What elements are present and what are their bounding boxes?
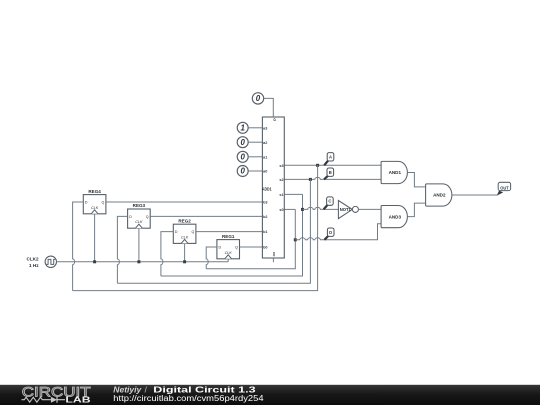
wire S3 feedback to REG4 D [73, 165, 318, 290]
svg-text:D: D [175, 230, 178, 234]
svg-text:REG1: REG1 [222, 234, 235, 239]
inverter NOT1 [338, 201, 358, 219]
node flag A [324, 153, 334, 166]
svg-text:LAB: LAB [65, 395, 90, 405]
svg-text:REG2: REG2 [178, 218, 191, 223]
svg-text:0: 0 [256, 94, 261, 103]
footer CircuitLab logo [22, 383, 92, 404]
svg-text:a2: a2 [263, 141, 267, 145]
flip-flop REG3 [128, 203, 151, 228]
and gate AND1 [381, 161, 407, 183]
svg-text:D: D [129, 215, 132, 219]
constant 0 source a2 [237, 137, 248, 148]
constant 1 source a3 [237, 122, 248, 133]
svg-text:REG3: REG3 [133, 203, 146, 208]
svg-text:a1: a1 [263, 155, 267, 159]
wire REG4 CLK vertical [94, 214, 96, 262]
svg-text:OUT: OUT [500, 185, 509, 191]
svg-text:1 Hz: 1 Hz [29, 263, 39, 268]
svg-text:CLK: CLK [135, 220, 143, 224]
wire node A row (S3) to AND1 input [284, 164, 381, 166]
svg-text:s0: s0 [279, 208, 283, 212]
node flag C [324, 197, 334, 210]
junction REG3 CLK tap [137, 260, 140, 263]
junction REG4 CLK tap [93, 260, 96, 263]
svg-text:CLK: CLK [225, 251, 233, 255]
footer title and url [113, 385, 264, 403]
svg-text:AND3: AND3 [389, 214, 402, 219]
svg-text:0: 0 [241, 167, 246, 176]
svg-text:ADD1: ADD1 [262, 186, 272, 191]
wire REG3 Q to ADD1 [150, 215, 262, 217]
wire node C to NOT1 [303, 207, 339, 209]
clock source CLK2 1 Hz [27, 256, 57, 268]
svg-text:Q: Q [102, 201, 105, 205]
wire REG3 CLK vertical [138, 228, 140, 262]
wire REG4 Q to ADD1 [106, 201, 263, 203]
wire S0 feedback to REG1 D [206, 209, 295, 268]
flip-flop REG2 [173, 218, 196, 243]
svg-text:s2: s2 [279, 178, 283, 182]
svg-text:co: co [272, 252, 276, 257]
wire carry-in [264, 98, 274, 117]
junction REG2 CLK tap [183, 260, 186, 263]
and gate AND2 [426, 184, 452, 206]
svg-text:C: C [328, 199, 331, 204]
node flag B [324, 168, 334, 179]
wire S1 from ADD1 to feedback [284, 193, 302, 195]
wire AND3 output to AND2 [407, 203, 425, 217]
svg-text:0: 0 [241, 138, 246, 147]
svg-text:s3: s3 [279, 164, 283, 168]
wire a3 [248, 127, 262, 129]
svg-text:AND1: AND1 [389, 170, 402, 175]
svg-text:b0: b0 [263, 246, 267, 250]
junction node A feedback tap [316, 164, 319, 167]
svg-text:0: 0 [241, 153, 246, 162]
svg-text:a3: a3 [263, 126, 267, 130]
wire NOT1 output to AND3 [359, 208, 382, 210]
svg-text:http://circuitlab.com/cvm56p4r: http://circuitlab.com/cvm56p4rdy254 [113, 394, 264, 403]
wire ADD1 carry-out stub [272, 258, 274, 262]
wire S2 feedback to REG3 D [117, 179, 310, 283]
wire REG1 CLK vertical [227, 259, 229, 262]
wire clock net horizontal [57, 261, 229, 263]
svg-text:CLK2: CLK2 [27, 257, 39, 262]
svg-text:AND2: AND2 [433, 193, 446, 198]
constant 0 source a0 [237, 166, 248, 177]
svg-text:D: D [329, 230, 332, 235]
node flag D [324, 228, 334, 240]
wire AND1 output to AND2 [407, 173, 425, 187]
svg-text:CLK: CLK [181, 235, 189, 239]
svg-text:1: 1 [241, 124, 245, 133]
junction node B feedback tap [309, 178, 312, 181]
node flag OUT [497, 182, 511, 195]
wire node B row (S2) to AND1 input [284, 177, 381, 179]
wire REG2 CLK vertical [184, 243, 186, 261]
wire AND2 output to OUT [452, 194, 497, 196]
junction node D tap on S0 [294, 238, 297, 241]
flip-flop REG1 [217, 234, 240, 259]
svg-text:B: B [329, 170, 332, 175]
svg-text:REG4: REG4 [88, 189, 101, 194]
svg-text:D: D [219, 246, 222, 250]
wire S1 feedback to REG2 D [161, 194, 303, 276]
adder ADD1 [262, 117, 284, 258]
constant 0 source a1 [237, 151, 248, 162]
wire S0 from ADD1 to feedback [284, 208, 295, 210]
svg-text:Q: Q [146, 215, 149, 219]
constant 0 carry-in source [252, 93, 263, 104]
wire a2 [248, 141, 262, 143]
wire REG2 Q to ADD1 [196, 231, 263, 233]
svg-text:NOT1: NOT1 [340, 207, 352, 212]
wire node D to AND3 [295, 224, 381, 240]
flip-flop REG4 [83, 189, 106, 214]
footer bar [0, 385, 540, 405]
svg-text:CLK: CLK [91, 206, 99, 210]
wire a1 [248, 156, 262, 158]
svg-text:b3: b3 [263, 201, 267, 205]
svg-text:a0: a0 [263, 170, 267, 174]
wire a0 [248, 170, 262, 172]
and gate AND3 [381, 206, 407, 228]
svg-text:A: A [329, 154, 332, 159]
svg-text:ci: ci [273, 118, 277, 121]
svg-text:b1: b1 [263, 230, 267, 234]
svg-text:b2: b2 [263, 215, 267, 219]
junction node C tap on S1 [301, 208, 304, 211]
svg-text:Q: Q [192, 230, 195, 234]
wire REG1 Q to ADD1 [240, 246, 263, 248]
svg-text:s1: s1 [279, 193, 283, 197]
svg-text:Q: Q [235, 246, 238, 250]
svg-text:D: D [85, 201, 88, 205]
